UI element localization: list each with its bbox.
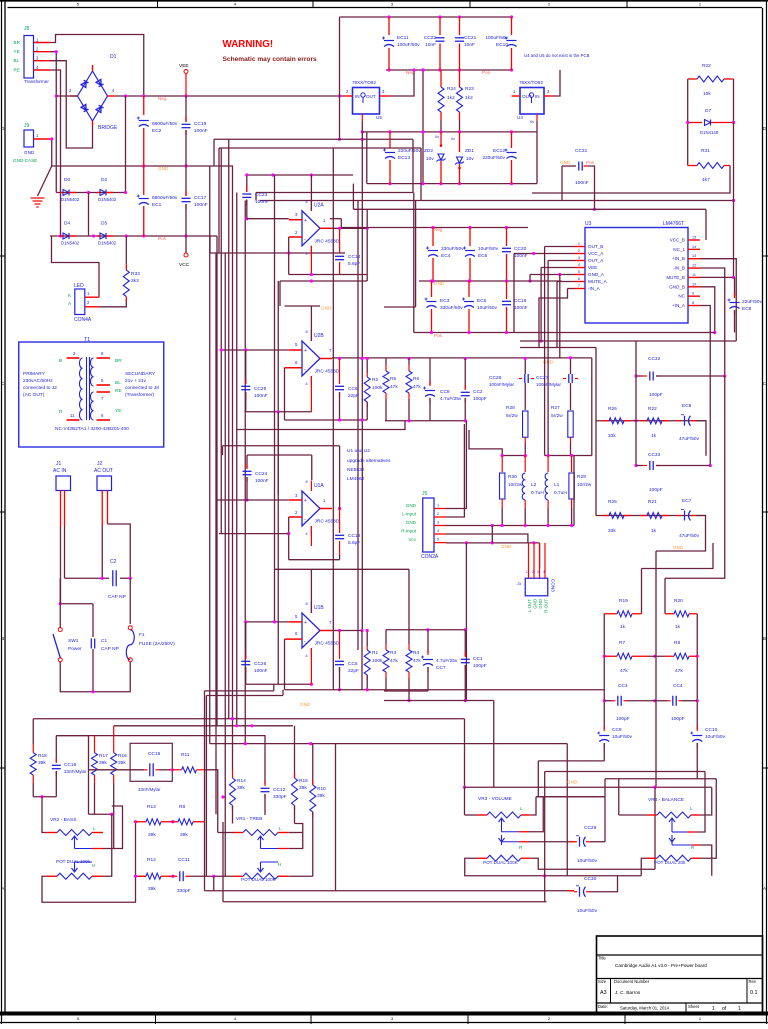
U2B lower rail y420	[285, 419, 368, 421]
bus line y253	[210, 252, 345, 254]
svg-text:CC24: CC24	[255, 471, 268, 477]
IC U3 LM4766T	[585, 228, 688, 324]
svg-text:YE: YE	[115, 408, 121, 414]
U3 pin 8 +IN_A	[688, 305, 700, 307]
wire CON2A pin5 Vcc row	[446, 542, 540, 544]
svg-text:11: 11	[70, 413, 75, 418]
svg-text:B: B	[1, 636, 4, 641]
U2B pin6 wire	[285, 367, 303, 369]
svg-text:CC15: CC15	[148, 751, 161, 757]
switch SW1 Power	[58, 628, 62, 632]
verticals into VR3	[464, 719, 466, 788]
resistor R6 47k	[408, 359, 410, 366]
svg-text:U4: U4	[517, 115, 523, 120]
U3 pin 4 VEE	[575, 267, 586, 269]
svg-text:ZD2: ZD2	[424, 148, 433, 154]
svg-text:4k7: 4k7	[702, 177, 710, 183]
svg-text:+: +	[304, 498, 307, 504]
svg-text:47uF/50v: 47uF/50v	[679, 436, 700, 442]
resistor R22 1k	[647, 418, 662, 424]
svg-text:CC9: CC9	[612, 727, 622, 733]
capacitor CC22	[439, 17, 441, 35]
wires VR2 upper	[89, 813, 112, 815]
svg-text:CC22: CC22	[424, 35, 437, 41]
svg-text:VR1 - TREB: VR1 - TREB	[236, 816, 262, 822]
VR2 bottom loop	[42, 822, 136, 903]
svg-text:CC3: CC3	[618, 683, 628, 689]
svg-text:B: B	[763, 636, 766, 641]
svg-text:C1: C1	[101, 638, 107, 644]
svg-text:4.7uF/25v: 4.7uF/25v	[440, 396, 462, 402]
wire CON2A pin3 GND row	[446, 525, 574, 527]
svg-text:FUSE (2A/250V): FUSE (2A/250V)	[139, 641, 175, 647]
U3 pin 12 -IN_B	[688, 267, 700, 269]
U1A output feedback up	[339, 446, 341, 509]
resistor R4 47k	[408, 630, 410, 644]
capacitor CC25 100nF	[245, 350, 247, 384]
capacitor CC12 330pF	[264, 736, 266, 784]
svg-text:10uF/50v: 10uF/50v	[577, 908, 598, 914]
gnd rail y281	[419, 280, 562, 282]
svg-text:R12: R12	[147, 857, 156, 863]
svg-text:39k: 39k	[148, 832, 156, 838]
wire x492 link	[491, 526, 493, 543]
U3 pin 10 GND_B	[688, 286, 700, 288]
svg-text:D0: D0	[64, 177, 70, 183]
capacitor CC13 5.6pF	[339, 509, 341, 534]
tone bus line y742	[210, 743, 568, 745]
svg-text:D2: D2	[101, 177, 107, 183]
U3 pin2 VCC_A wire	[514, 253, 575, 255]
wire -IN_B net	[700, 268, 725, 376]
svg-text:BRIDGE: BRIDGE	[98, 125, 118, 131]
svg-text:3: 3	[537, 570, 539, 574]
U2B top rail with GND	[285, 305, 321, 307]
svg-text:6: 6	[578, 277, 580, 281]
svg-text:CC26: CC26	[254, 661, 267, 667]
svg-text:CC25: CC25	[254, 386, 267, 392]
U1A pin2 feed line y533	[219, 533, 289, 535]
diode D4	[63, 233, 69, 239]
svg-text:Neg: Neg	[158, 96, 167, 101]
svg-text:CC11: CC11	[178, 857, 190, 863]
svg-text:+: +	[304, 620, 307, 626]
mid rail y70	[386, 69, 512, 71]
svg-text:CC19: CC19	[194, 121, 207, 127]
svg-text:R21: R21	[648, 499, 657, 505]
svg-text:J1: J1	[56, 461, 62, 467]
T1 pins	[67, 357, 80, 359]
svg-text:GND: GND	[673, 545, 684, 550]
svg-text:CC21: CC21	[464, 35, 477, 41]
svg-text:4: 4	[543, 570, 545, 574]
svg-text:BR: BR	[115, 358, 122, 364]
long vertical x278	[277, 281, 279, 684]
svg-text:SECUNDARY: SECUNDARY	[125, 371, 156, 377]
svg-text:EC11: EC11	[397, 35, 409, 41]
svg-text:CON3: CON3	[551, 579, 556, 592]
svg-text:GND: GND	[560, 160, 571, 165]
VR2 wiper 2	[72, 865, 78, 872]
svg-text:CC18: CC18	[514, 298, 527, 304]
wire x466 down to filter	[465, 543, 467, 701]
capacitor EC10	[511, 17, 513, 35]
svg-text:0v: 0v	[530, 119, 534, 124]
op-amp U1B	[302, 613, 320, 648]
svg-text:Date:: Date:	[598, 1004, 608, 1009]
capacitor EC3 330uF	[431, 281, 433, 297]
resistor R29 10r/2w	[571, 456, 573, 473]
capacitor EC6 10uF	[469, 228, 471, 247]
wire J8 pin4 down to Pos rail	[50, 70, 61, 236]
wires above VR4	[605, 778, 716, 780]
svg-text:J5: J5	[422, 491, 428, 497]
svg-text:D7: D7	[705, 108, 711, 114]
svg-text:J8: J8	[24, 26, 30, 32]
U2B output pin7 long wire	[320, 358, 332, 360]
wire J9 pin to gnd symbol	[50, 139, 52, 166]
vertical x636	[635, 341, 637, 466]
svg-text:GND: GND	[321, 306, 332, 311]
svg-text:CC5: CC5	[348, 661, 358, 667]
svg-text:R10: R10	[317, 786, 326, 792]
svg-text:L: L	[690, 806, 693, 811]
svg-text:33nF/Mylar: 33nF/Mylar	[138, 787, 161, 792]
wire CON2A pin1 up	[446, 421, 466, 509]
svg-text:R29: R29	[577, 474, 586, 480]
capacitor CC2 100pF	[464, 359, 466, 390]
svg-text:39k: 39k	[299, 785, 307, 791]
diode D5	[100, 233, 106, 239]
svg-text:10v: 10v	[426, 156, 434, 162]
U3 pin 11 MUTE_B	[688, 276, 700, 278]
U3 pin6 MUTE_A wire	[557, 281, 575, 283]
VR3 wiper1	[499, 818, 505, 825]
svg-text:VCC_B: VCC_B	[670, 238, 685, 243]
svg-text:8: 8	[306, 330, 308, 334]
svg-text:+IN_B: +IN_B	[672, 256, 685, 261]
svg-text:POT DUAL 100k: POT DUAL 100k	[56, 859, 91, 864]
svg-text:3: 3	[578, 256, 580, 260]
pot VR2 track2	[47, 875, 58, 877]
wire CC28 column	[524, 359, 526, 375]
svg-text:CC33: CC33	[648, 452, 661, 458]
svg-text:JRC 4558D: JRC 4558D	[315, 641, 340, 647]
capacitor CC23 100nF	[242, 193, 251, 195]
svg-text:3k3: 3k3	[131, 278, 139, 284]
svg-text:L2: L2	[531, 482, 537, 488]
svg-text:39k: 39k	[38, 760, 46, 766]
svg-text:D4: D4	[64, 221, 70, 227]
svg-text:GND: GND	[300, 702, 311, 707]
svg-text:10uF/50v: 10uF/50v	[478, 246, 499, 252]
bus corner x256	[255, 193, 257, 201]
wire J8 pin2 down	[50, 52, 56, 193]
svg-text:10uF/50v: 10uF/50v	[612, 734, 633, 740]
svg-text:8: 8	[306, 200, 308, 204]
svg-text:100pF: 100pF	[473, 396, 487, 402]
wire into VR3	[465, 786, 712, 788]
svg-text:EC8: EC8	[742, 306, 752, 312]
U2A stage feedback box	[246, 175, 248, 192]
svg-text:R18: R18	[38, 753, 47, 759]
wire U5 gnd down	[361, 121, 363, 132]
svg-text:EC12: EC12	[493, 148, 505, 154]
svg-text:100pF: 100pF	[473, 663, 487, 669]
right filter bottom rails	[384, 690, 428, 692]
vertical x596	[595, 348, 597, 516]
U1B pin6 wire	[285, 638, 303, 640]
svg-text:4: 4	[306, 532, 308, 536]
svg-text:U2B: U2B	[314, 333, 324, 339]
svg-text:0.1: 0.1	[750, 990, 758, 996]
svg-text:R-OUT: R-OUT	[544, 599, 549, 613]
svg-text:CC28: CC28	[489, 375, 502, 381]
svg-text:33k: 33k	[608, 433, 616, 439]
power bus corner down from Pos rail	[216, 236, 218, 727]
row R12 CC11 y876	[136, 875, 147, 877]
svg-text:330pF: 330pF	[177, 888, 191, 894]
svg-text:100uF/50v: 100uF/50v	[397, 42, 420, 48]
svg-text:100pF: 100pF	[616, 716, 630, 722]
svg-text:MUTE_A: MUTE_A	[588, 279, 608, 284]
svg-text:H: H	[278, 862, 281, 867]
svg-text:12: 12	[692, 264, 696, 268]
svg-text:GND: GND	[406, 520, 417, 525]
svg-text:EC9: EC9	[682, 403, 692, 409]
wire down to VR3 area	[493, 701, 495, 788]
svg-text:CAP NP: CAP NP	[101, 646, 119, 652]
regulator U5 79XX/TO92	[353, 88, 380, 115]
svg-text:3: 3	[437, 521, 439, 525]
svg-text:R6: R6	[413, 376, 419, 382]
U1A pin3 wire	[216, 499, 289, 501]
svg-text:L-input: L-input	[402, 512, 417, 517]
op-amp U1A	[302, 491, 320, 526]
svg-text:39k: 39k	[317, 793, 325, 799]
U1B V+ wire	[310, 569, 312, 613]
svg-text:GND: GND	[158, 166, 169, 171]
resistor R28 5r/2w	[523, 411, 528, 437]
svg-text:R1: R1	[372, 650, 378, 656]
svg-text:33nF/Mylar: 33nF/Mylar	[64, 769, 87, 774]
capacitor CC8 4.7uF	[429, 359, 431, 386]
svg-text:A: A	[1, 886, 4, 891]
net line y341	[520, 340, 636, 342]
svg-text:1k: 1k	[651, 528, 657, 534]
svg-text:LED: LED	[74, 283, 84, 289]
svg-text:78XX/TO92: 78XX/TO92	[519, 80, 543, 85]
pot VR1 track2	[233, 875, 243, 877]
svg-text:Title: Title	[598, 956, 606, 961]
U3 pin 9 NC	[688, 295, 700, 297]
svg-text:1k: 1k	[620, 624, 626, 630]
svg-text:47k: 47k	[390, 658, 398, 664]
svg-text:EC10: EC10	[496, 42, 508, 48]
svg-text:1k: 1k	[675, 624, 681, 630]
svg-text:6800uF/50v: 6800uF/50v	[152, 195, 178, 201]
svg-text:L1: L1	[554, 482, 560, 488]
svg-text:upgrade alternatives: upgrade alternatives	[347, 458, 391, 464]
U1A bottom rail y559	[289, 559, 340, 561]
GND rail y166	[52, 165, 233, 167]
VR4 track2 wiper	[669, 835, 675, 842]
svg-text:GND: GND	[533, 599, 538, 609]
svg-text:5: 5	[437, 538, 439, 542]
svg-text:CC8: CC8	[440, 389, 450, 395]
svg-text:100pF: 100pF	[649, 487, 663, 493]
U3 pin7 -IN_A wire	[568, 288, 575, 290]
svg-text:4: 4	[306, 654, 308, 658]
svg-text:JRC 4558D: JRC 4558D	[315, 239, 340, 245]
svg-text:U1B: U1B	[314, 605, 324, 611]
capacitor CC9 10uF	[603, 726, 605, 729]
svg-text:EC7: EC7	[682, 498, 692, 504]
svg-text:R8: R8	[674, 640, 680, 646]
capacitor EC5 10uF	[468, 281, 470, 297]
svg-text:1k2: 1k2	[447, 95, 455, 101]
svg-text:CC14: CC14	[348, 254, 361, 260]
left filter bottom rail	[385, 420, 465, 422]
svg-text:4: 4	[306, 252, 308, 256]
svg-text:R7: R7	[619, 640, 625, 646]
svg-text:OUT: OUT	[366, 94, 376, 99]
svg-text:100uF/50v: 100uF/50v	[485, 35, 508, 41]
inductor L2	[524, 456, 526, 473]
svg-text:100nF/Mylar: 100nF/Mylar	[536, 382, 562, 387]
svg-text:CC29: CC29	[584, 825, 597, 831]
resistor R18 39k	[32, 719, 34, 744]
svg-text:100nF: 100nF	[575, 180, 589, 186]
op-amp U2A	[302, 211, 320, 246]
U3 pin5 GND_A wire	[530, 274, 575, 276]
svg-text:100nF: 100nF	[514, 305, 528, 311]
svg-text:CC23: CC23	[255, 192, 268, 198]
wire between diode rows	[88, 193, 90, 237]
capacitor EC4 330uF	[432, 228, 434, 247]
zener ZD1	[459, 132, 461, 152]
svg-text:CC16: CC16	[64, 762, 77, 768]
resistor R2 100k	[366, 359, 368, 374]
U1B pin5 wire	[246, 621, 289, 623]
right vertical x697	[696, 614, 698, 726]
resistor R25 33k	[609, 513, 624, 519]
svg-text:100nF: 100nF	[514, 253, 528, 259]
svg-text:B: B	[59, 358, 62, 364]
svg-text:100pF: 100pF	[671, 716, 685, 722]
svg-text:R30: R30	[508, 474, 517, 480]
capacitor CC20 100nF	[506, 228, 508, 247]
resistor R26 33k	[609, 418, 624, 424]
U3 pin 15 VCC_B	[688, 239, 700, 241]
svg-text:CC13: CC13	[348, 533, 361, 539]
svg-text:VCC: VCC	[179, 262, 190, 268]
svg-text:CC4: CC4	[673, 683, 683, 689]
resistor R16 39k	[113, 726, 115, 753]
line y689 to right	[285, 689, 605, 691]
svg-text:4: 4	[578, 263, 580, 267]
resistor R3 47k	[385, 630, 387, 644]
svg-text:4: 4	[306, 382, 308, 386]
svg-text:1k2: 1k2	[465, 95, 473, 101]
svg-text:J. C. Barros: J. C. Barros	[615, 990, 641, 996]
wire U5 out corner	[390, 70, 414, 96]
U2B V+ wire	[310, 306, 312, 341]
top rail y17	[340, 16, 512, 18]
VR1 wiper 2	[258, 865, 264, 872]
svg-text:8: 8	[306, 602, 308, 606]
T1 primary coil	[79, 358, 82, 420]
capacitor EC8 22uF	[734, 277, 736, 296]
wire R31 to lower nets	[532, 166, 730, 194]
svg-text:5r/2w: 5r/2w	[551, 413, 563, 419]
svg-text:L: L	[93, 826, 96, 831]
U2A feedback bottom rail	[289, 274, 368, 276]
svg-text:D1N5402: D1N5402	[98, 241, 117, 246]
svg-text:CON4A: CON4A	[74, 317, 92, 323]
row R26 R22 EC9 y420	[596, 420, 706, 422]
svg-text:AC OUT: AC OUT	[94, 468, 113, 474]
capacitor EC11	[388, 17, 390, 35]
svg-text:EC3: EC3	[440, 298, 450, 304]
U1B top rail	[275, 568, 410, 570]
left vertical bus x209-x247 descending	[209, 166, 211, 744]
svg-text:100nF: 100nF	[254, 668, 268, 674]
pos rail y332	[414, 332, 715, 334]
svg-text:R15: R15	[299, 778, 308, 784]
svg-text:A: A	[763, 886, 766, 891]
tone bus line y718	[33, 718, 464, 720]
VR2 wiper 1	[72, 836, 78, 843]
svg-text:220uF/50v: 220uF/50v	[398, 148, 421, 154]
svg-text:R3: R3	[390, 650, 396, 656]
svg-text:CC1: CC1	[473, 656, 483, 662]
svg-text:POT DUAL 20k: POT DUAL 20k	[654, 860, 686, 865]
svg-text:A3: A3	[600, 990, 607, 996]
svg-text:1: 1	[578, 242, 580, 246]
svg-text:R: R	[59, 409, 63, 415]
wire y796 bottom	[33, 796, 56, 798]
svg-text:13: 13	[692, 254, 696, 258]
svg-text:J9: J9	[24, 123, 30, 129]
svg-text:POT DUAL 100K: POT DUAL 100K	[241, 877, 277, 882]
svg-text:JRC 4558D: JRC 4558D	[315, 369, 340, 375]
svg-text:5.6pF: 5.6pF	[348, 261, 360, 267]
wire U4 in from pos	[511, 69, 513, 71]
svg-text:15: 15	[692, 236, 696, 240]
capacitor C2 CAP NP	[65, 577, 110, 579]
svg-text:10r/2w: 10r/2w	[508, 482, 523, 488]
svg-text:GND-CASE: GND-CASE	[13, 158, 37, 163]
svg-text:100nF: 100nF	[254, 393, 268, 399]
svg-text:CC12: CC12	[273, 787, 286, 793]
svg-text:100pF: 100pF	[649, 392, 663, 398]
box CC15	[130, 743, 172, 781]
capacitor EC1 6800uF	[143, 166, 145, 195]
svg-text:R22: R22	[648, 406, 657, 412]
svg-text:11: 11	[692, 273, 696, 277]
diode row D0 D2 at y192	[56, 192, 125, 194]
svg-text:100nF: 100nF	[194, 202, 208, 208]
svg-text:Schematic may contain errors: Schematic may contain errors	[223, 56, 318, 63]
svg-text:R28: R28	[506, 405, 515, 411]
svg-text:10: 10	[692, 282, 696, 286]
svg-text:GND: GND	[406, 503, 417, 508]
svg-text:10uF/50v: 10uF/50v	[705, 734, 726, 740]
resistor R33 3k3	[125, 236, 127, 264]
capacitor CC1 100pF	[464, 630, 466, 656]
svg-text:U1 and U2: U1 and U2	[347, 448, 370, 454]
